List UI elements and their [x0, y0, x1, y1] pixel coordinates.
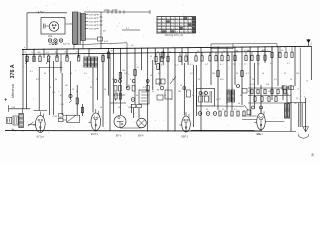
svg-text:4μF 30: 4μF 30	[63, 44, 71, 46]
svg-text:ECH 4: ECH 4	[91, 134, 98, 136]
svg-text:0,25: 0,25	[216, 99, 220, 101]
svg-text:EM 4: EM 4	[138, 136, 144, 138]
svg-text:0,5: 0,5	[84, 73, 87, 75]
svg-text:5k: 5k	[172, 79, 174, 81]
svg-text:0,1: 0,1	[105, 53, 108, 55]
svg-text:EBF 2: EBF 2	[182, 137, 189, 139]
svg-text:1M: 1M	[294, 103, 297, 105]
svg-text:5k: 5k	[281, 50, 283, 52]
svg-text:6,3V 2A: 6,3V 2A	[89, 13, 97, 16]
svg-text:30: 30	[150, 56, 152, 58]
svg-text:3k: 3k	[240, 95, 242, 97]
svg-text:1M: 1M	[158, 83, 161, 85]
svg-text:50: 50	[118, 107, 120, 109]
svg-text:5k: 5k	[169, 51, 171, 53]
svg-text:2,5V: 2,5V	[257, 134, 262, 136]
svg-text:0,1: 0,1	[158, 73, 161, 75]
svg-text:5k: 5k	[181, 51, 183, 53]
svg-text:8: 8	[226, 103, 227, 105]
svg-text:25: 25	[198, 79, 200, 81]
svg-text:50: 50	[164, 95, 166, 97]
svg-text:5k: 5k	[157, 52, 159, 54]
svg-text:5k: 5k	[286, 109, 288, 111]
svg-text:0,5: 0,5	[170, 99, 173, 101]
svg-text:0,5M: 0,5M	[53, 116, 58, 118]
svg-text:100: 100	[212, 73, 215, 75]
svg-text:0,1: 0,1	[108, 95, 111, 97]
svg-text:1M: 1M	[65, 85, 68, 87]
svg-text:25: 25	[284, 73, 286, 75]
svg-text:2k: 2k	[72, 89, 74, 91]
svg-text:Minerva: Minerva	[10, 83, 15, 98]
svg-text:0,5: 0,5	[60, 95, 63, 97]
svg-text:5k: 5k	[262, 73, 264, 75]
svg-text:5k: 5k	[55, 79, 57, 81]
svg-text:1M: 1M	[54, 52, 57, 54]
svg-text:1M: 1M	[268, 91, 271, 93]
svg-text:100: 100	[296, 73, 299, 75]
svg-text:1M: 1M	[157, 90, 160, 92]
svg-text:50: 50	[276, 95, 278, 97]
svg-text:Ch: Ch	[131, 45, 134, 47]
svg-text:0,25: 0,25	[220, 79, 224, 81]
svg-text:50: 50	[252, 79, 254, 81]
svg-text:376 A: 376 A	[10, 64, 16, 78]
svg-text:⌜4,5V⌝: ⌜4,5V⌝	[37, 10, 46, 14]
svg-text:0,25: 0,25	[36, 79, 40, 81]
svg-text:5k: 5k	[76, 52, 78, 54]
svg-text:6,3V 2A: 6,3V 2A	[89, 20, 97, 23]
svg-text:0,25: 0,25	[124, 73, 128, 75]
svg-text:50k: 50k	[37, 52, 40, 54]
svg-text:2k: 2k	[290, 79, 292, 81]
svg-text:50: 50	[111, 51, 113, 53]
svg-text:0,1: 0,1	[30, 71, 33, 73]
svg-text:100: 100	[204, 91, 207, 93]
svg-text:0,5: 0,5	[274, 79, 277, 81]
svg-text:LD2: LD2	[48, 36, 53, 38]
svg-text:2k: 2k	[206, 109, 208, 111]
svg-text:0,1: 0,1	[137, 67, 140, 69]
svg-text:Minerva 376 1-42: Minerva 376 1-42	[165, 34, 184, 37]
svg-text:ABC 2: ABC 2	[262, 49, 269, 52]
svg-text:0,1μF: 0,1μF	[214, 47, 220, 49]
svg-text:0,1 50: 0,1 50	[244, 50, 250, 52]
svg-text:6,3V 2A: 6,3V 2A	[89, 24, 97, 27]
svg-text:25: 25	[76, 91, 78, 93]
svg-text:2W: 2W	[41, 137, 44, 139]
svg-text:EF 9: EF 9	[116, 136, 122, 138]
svg-text:10: 10	[70, 73, 72, 75]
svg-text:5k: 5k	[211, 51, 213, 53]
svg-text:6,3V 2A: 6,3V 2A	[89, 17, 97, 20]
svg-text:10: 10	[238, 103, 240, 105]
svg-text:8: 8	[50, 87, 51, 89]
svg-text:2k: 2k	[104, 89, 106, 91]
svg-text:1M: 1M	[178, 91, 181, 93]
svg-text:10: 10	[236, 73, 238, 75]
svg-text:50k: 50k	[266, 84, 269, 86]
svg-text:100: 100	[112, 79, 115, 81]
svg-text:0,1: 0,1	[266, 95, 269, 97]
svg-text:1M: 1M	[146, 83, 149, 85]
svg-text:50: 50	[44, 73, 46, 75]
svg-text:25: 25	[96, 79, 98, 81]
svg-text:2k: 2k	[192, 95, 194, 97]
svg-text:3k: 3k	[152, 91, 154, 93]
svg-text:6,3V: 6,3V	[104, 41, 109, 43]
svg-text:8: 8	[130, 79, 131, 81]
svg-text:10: 10	[150, 75, 152, 77]
svg-text:25: 25	[180, 85, 182, 87]
svg-text:36: 36	[311, 153, 315, 157]
svg-text:6,3V 2A: 6,3V 2A	[89, 27, 97, 30]
svg-text:2k: 2k	[100, 107, 102, 109]
svg-text:5k: 5k	[136, 95, 138, 97]
svg-text:5k: 5k	[236, 51, 238, 53]
svg-text:8: 8	[228, 91, 229, 93]
svg-text:3k: 3k	[90, 87, 92, 89]
svg-text:5k: 5k	[223, 51, 225, 53]
svg-text:0,1: 0,1	[246, 73, 249, 75]
svg-text:100: 100	[128, 107, 131, 109]
svg-text:3k: 3k	[248, 91, 250, 93]
